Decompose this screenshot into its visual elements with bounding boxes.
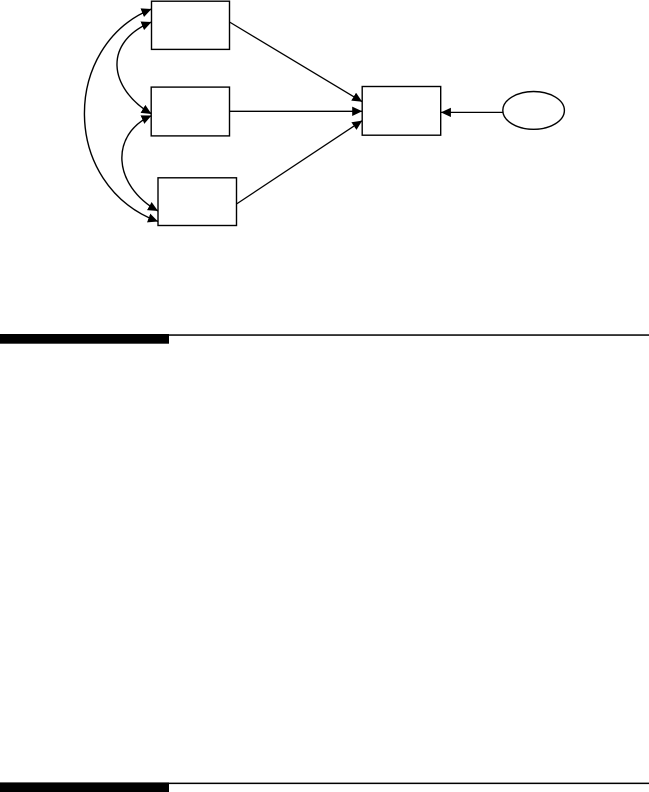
box X2 (middle-left rectangle) [151,87,229,136]
path arrow X1 to Y [230,22,363,102]
path arrow X3 to Y [237,121,363,204]
path arrow X2 to Y [230,110,363,112]
box Y (central rectangle) [362,87,441,136]
lower thick black bar [0,782,169,792]
box X3 (bottom-left rectangle) [158,178,237,226]
covariance arc X2-X3 (double-headed curve) [122,116,158,212]
ellipse E (error term) [503,92,565,130]
upper horizontal rule [0,334,649,336]
covariance arc X1-X2 (double-headed curve) [117,22,152,114]
arrow E to Y (error term arrow) [441,111,503,113]
lower horizontal rule [0,783,649,785]
upper thick black bar [0,334,169,344]
box X1 (top-left rectangle) [152,1,230,49]
covariance arc X1-X3 (outer double-headed curve) [84,9,158,222]
